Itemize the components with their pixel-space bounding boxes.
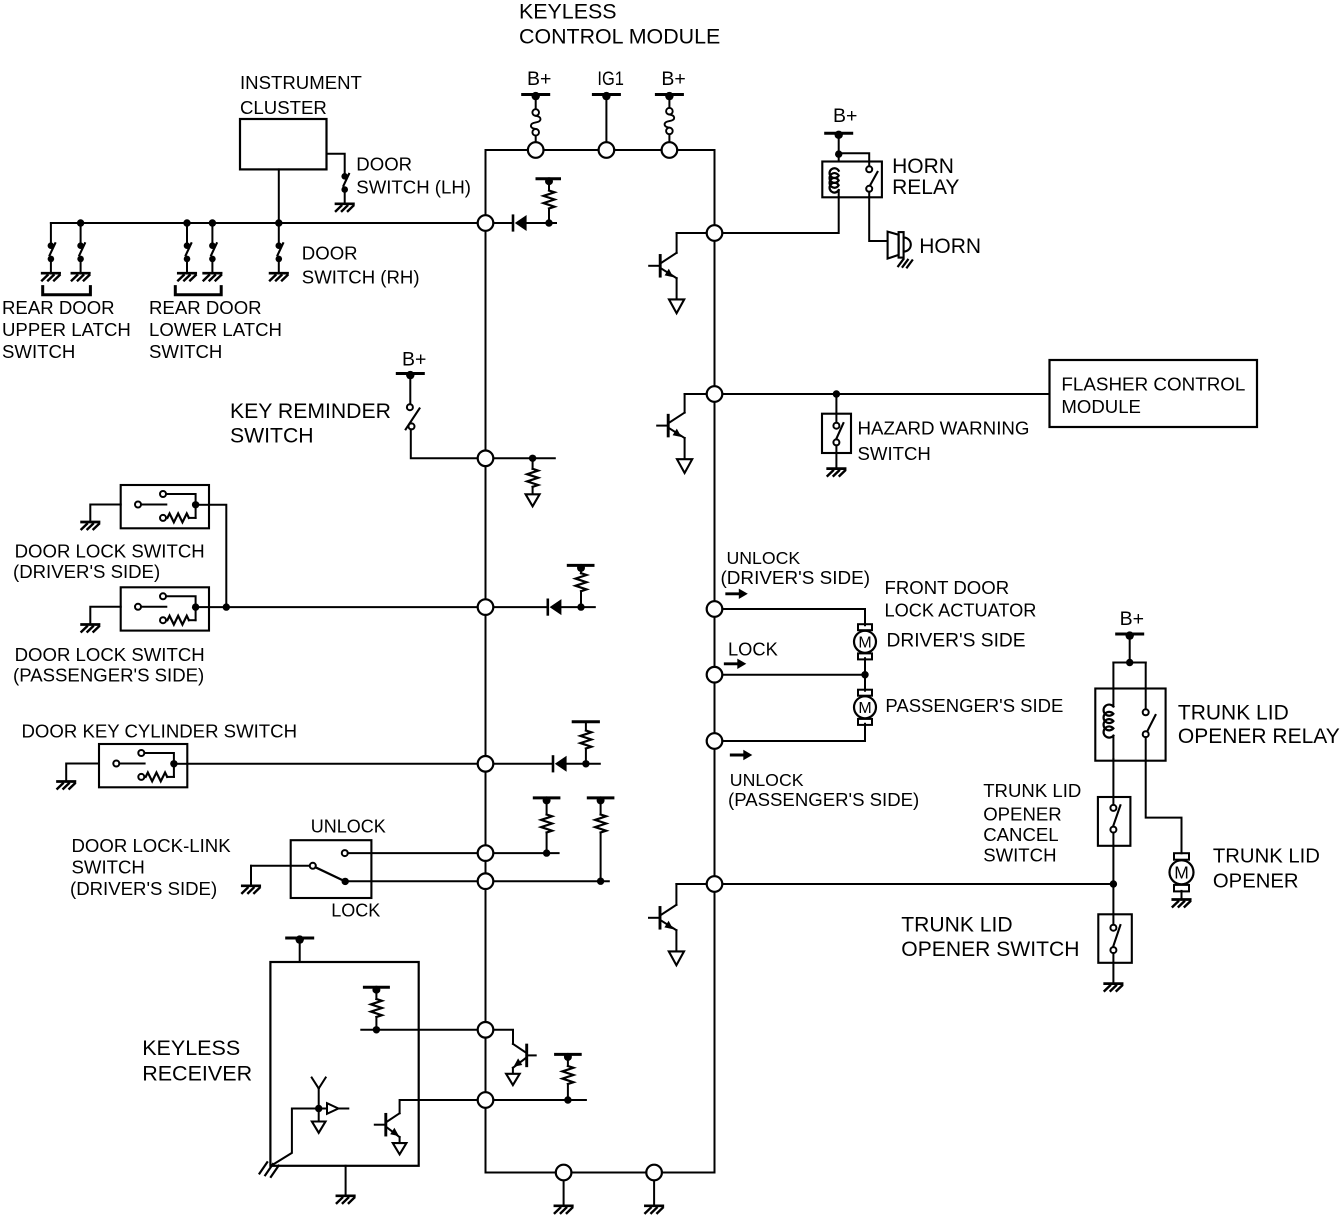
svg-text:MODULE: MODULE <box>1061 396 1141 417</box>
wire door switch RH drop <box>278 223 280 244</box>
diode (door switch input) <box>513 215 527 231</box>
wire pin to trunk lid switches <box>715 883 1114 885</box>
horn relay coil <box>830 168 839 192</box>
wire key reminder internal stub <box>486 457 555 459</box>
label DOOR SWITCH (RH) <box>302 242 420 287</box>
wire door lock switch (passenger) to ground <box>90 607 120 623</box>
junction pull-up (unlock row) <box>543 849 550 856</box>
svg-text:DOOR: DOOR <box>302 242 358 263</box>
wire Q2 collector <box>684 394 686 413</box>
wire unlock pin to actuator motor 1 <box>715 609 866 625</box>
trunk relay switch <box>1143 689 1156 761</box>
svg-text:HORN: HORN <box>919 235 981 258</box>
bracket rear door upper latch <box>43 287 91 295</box>
wire receiver power to box <box>299 940 301 963</box>
wire pull-up resistor (lock row) <box>600 800 602 814</box>
pin unlock passenger output <box>707 733 723 749</box>
power bar (receiver pull-up) <box>364 986 388 994</box>
wire B+ to key reminder switch <box>409 375 411 404</box>
svg-text:REAR DOOR: REAR DOOR <box>2 297 115 318</box>
pin flasher output <box>707 386 723 402</box>
wire door lock switch (driver) output <box>209 505 226 607</box>
door lock-link switch pole <box>251 863 316 869</box>
label DOOR LOCK-LINK SWITCH (DRIVER'S SIDE) <box>70 835 231 899</box>
junction trunk relay feed <box>1126 659 1133 666</box>
wire horn relay coil lead <box>838 190 840 197</box>
door key cylinder switch <box>99 744 187 787</box>
label KEYLESS CONTROL MODULE <box>519 0 720 48</box>
transistor Q4 <box>506 1044 536 1085</box>
pin ground 2 <box>646 1165 662 1181</box>
wire key reminder switch to pin <box>411 429 486 458</box>
open arrow (key reminder pull-down) <box>526 494 540 506</box>
svg-text:(DRIVER'S SIDE): (DRIVER'S SIDE) <box>13 561 160 582</box>
power terminal B+ (key reminder) <box>397 371 423 379</box>
ground (hazard warning switch) <box>828 469 846 476</box>
power bar (receiver data pull-up) <box>556 1053 581 1061</box>
wire hazard switch to ground <box>835 453 837 467</box>
svg-text:PASSENGER'S SIDE: PASSENGER'S SIDE <box>885 695 1063 716</box>
svg-text:DRIVER'S SIDE: DRIVER'S SIDE <box>887 631 1026 652</box>
wire junction to motor2 <box>864 675 866 691</box>
rear door upper latch switch 2 <box>72 242 90 280</box>
svg-text:TRUNK LID: TRUNK LID <box>1178 702 1289 725</box>
pin trunk output <box>707 876 723 892</box>
wire pull-up resistor (row2) <box>580 569 582 574</box>
wire fusible link to pin (right) <box>668 134 670 150</box>
label TRUNK LID OPENER (motor) <box>1213 846 1320 893</box>
resistor pull-up (receiver) <box>371 999 382 1017</box>
motor M (trunk lid opener) <box>1170 853 1194 891</box>
junction on bus (upper latch 2) <box>77 219 84 226</box>
label DOOR LOCK SWITCH (PASSENGER'S SIDE) <box>13 644 205 685</box>
junction diode/pull-up (row1) <box>545 219 552 226</box>
wire UNLOCK contact to pin <box>348 852 486 854</box>
junction on bus (door switch RH) <box>275 219 282 226</box>
wire receiver pull-up resistor <box>375 990 377 999</box>
wire pin to transistor Q1 <box>677 232 715 234</box>
resistor pull-up (receiver data) <box>562 1066 573 1084</box>
wire receiver box to ground <box>345 1166 347 1195</box>
wire instrument cluster to door switch LH <box>327 154 345 174</box>
svg-text:OPENER: OPENER <box>983 803 1062 824</box>
svg-text:SWITCH: SWITCH <box>983 844 1056 865</box>
fusible link (left B+) <box>531 109 541 135</box>
junction actuator common <box>861 671 868 678</box>
pin B+ (module top right) <box>662 142 678 158</box>
wire antenna node to case corner <box>272 1109 319 1166</box>
wire receiver output to pin <box>361 1029 485 1031</box>
ground (module pin 1) <box>555 1206 573 1213</box>
junction antenna node <box>315 1105 322 1112</box>
wire pin to transistor Q5 <box>400 1100 486 1113</box>
svg-text:KEYLESS: KEYLESS <box>519 0 617 24</box>
wire opener switch to ground <box>1112 963 1114 982</box>
pin ground 1 <box>556 1165 572 1181</box>
wire pull-up resistor (unlock row) <box>546 800 548 814</box>
door lock-link LOCK contact <box>342 878 349 885</box>
svg-text:RECEIVER: RECEIVER <box>142 1062 252 1086</box>
svg-text:B+: B+ <box>661 68 685 90</box>
keyless receiver box <box>270 962 418 1166</box>
transistor Q2 <box>657 413 692 473</box>
svg-text:IG1: IG1 <box>597 68 624 90</box>
svg-text:SWITCH: SWITCH <box>230 425 314 448</box>
key reminder switch <box>406 404 420 429</box>
power terminal (keyless receiver B+) <box>287 935 313 943</box>
rear door upper latch switch 1 <box>42 242 60 280</box>
wire LOCK contact to pin <box>349 880 486 882</box>
svg-text:DOOR LOCK-LINK: DOOR LOCK-LINK <box>72 835 232 856</box>
label KEYLESS RECEIVER <box>142 1036 252 1086</box>
pin receiver data <box>478 1092 494 1108</box>
wire pin to transistor Q4 <box>486 1030 514 1044</box>
svg-text:REAR DOOR: REAR DOOR <box>149 297 262 318</box>
svg-text:UPPER LATCH: UPPER LATCH <box>2 319 131 340</box>
wire resistor to arrow <box>532 458 534 469</box>
ground (door lock switch passenger) <box>82 625 100 632</box>
flasher control module box <box>1050 360 1258 427</box>
wire pull-up resistor (row3) <box>585 722 587 731</box>
power terminal B+ (left) <box>523 92 549 100</box>
wire Q1 collector <box>676 233 678 253</box>
svg-text:DOOR LOCK SWITCH: DOOR LOCK SWITCH <box>15 644 205 665</box>
rear door lower latch switch 2 <box>204 242 222 280</box>
junction door lock outputs <box>223 603 230 610</box>
power bar (row3 pull-up) <box>573 720 598 723</box>
door lock switch (passenger's side) <box>121 587 209 630</box>
label TRUNK LID OPENER RELAY <box>1178 702 1340 749</box>
svg-text:KEY REMINDER: KEY REMINDER <box>230 400 391 423</box>
svg-text:LOCK: LOCK <box>331 900 380 920</box>
wire horn relay contact feed <box>839 153 870 161</box>
rear door lower latch switch 1 <box>178 242 196 280</box>
wire instrument cluster to door switch bus <box>278 169 280 223</box>
wire pin to diode (door switch input) <box>486 222 514 224</box>
wire lock row stub <box>486 880 609 882</box>
label UNLOCK (DRIVER'S SIDE) <box>721 548 871 589</box>
hazard warning switch <box>822 414 851 453</box>
door lock switch (driver's side) <box>121 485 209 528</box>
svg-text:LOCK ACTUATOR: LOCK ACTUATOR <box>885 600 1037 620</box>
wire receiver data stub <box>486 1099 586 1101</box>
wire Q3 collector <box>675 884 677 905</box>
wire key cylinder output to pin <box>187 763 485 765</box>
svg-text:M: M <box>858 700 871 717</box>
wire trunk relay coil to cancel switch <box>1112 759 1114 797</box>
wire diode to pull-up junction <box>527 222 556 224</box>
trunk lid opener switch <box>1098 914 1132 963</box>
power bar (unlock row pull-up) <box>534 796 559 804</box>
pin lock-link unlock input <box>478 845 494 861</box>
arrow lock <box>725 659 746 669</box>
svg-text:FRONT DOOR: FRONT DOOR <box>885 577 1010 598</box>
label HAZARD WARNING SWITCH <box>858 418 1030 464</box>
junction horn relay feed <box>835 150 842 157</box>
svg-text:OPENER: OPENER <box>1213 870 1299 892</box>
amplifier arrow (receiver) <box>319 1103 349 1114</box>
svg-text:RELAY: RELAY <box>892 176 959 199</box>
wire pull-up resistor (receiver data) <box>567 1057 569 1066</box>
ground (keyless receiver) <box>337 1196 355 1203</box>
label FLASHER CONTROL MODULE <box>1061 374 1245 417</box>
resistor pull-up (unlock row) <box>541 815 552 833</box>
pin door lock switch input <box>478 599 494 615</box>
junction diode/pull-up (row3) <box>582 760 589 767</box>
wire rear door upper latch switch 1 drop <box>50 223 52 244</box>
wire B+ to horn relay <box>838 135 840 162</box>
trunk lid opener relay box <box>1095 689 1165 761</box>
antenna (keyless receiver) <box>312 1078 326 1109</box>
svg-text:SWITCH: SWITCH <box>858 443 931 464</box>
pin IG1 (module top) <box>599 142 615 158</box>
horn <box>888 232 913 268</box>
power bar (row2 pull-up) <box>568 564 593 572</box>
ground (door lock-link switch) <box>242 886 260 893</box>
wire diode to stub (row2) <box>561 606 594 608</box>
svg-text:(DRIVER'S SIDE): (DRIVER'S SIDE) <box>721 568 871 589</box>
wire diode to stub (row3) <box>567 763 600 765</box>
arrow unlock driver <box>727 589 748 599</box>
fusible link (right B+) <box>665 108 675 134</box>
pin key reminder input <box>478 451 494 467</box>
wire pin to diode (row2) <box>486 606 548 608</box>
svg-text:SWITCH: SWITCH <box>72 856 145 877</box>
trunk relay coil <box>1104 689 1114 760</box>
label TRUNK LID OPENER SWITCH <box>901 914 1079 961</box>
pin lock output <box>707 667 723 683</box>
resistor key reminder pull-down <box>527 469 538 487</box>
ground (door key cylinder switch) <box>57 782 75 789</box>
svg-text:HAZARD WARNING: HAZARD WARNING <box>858 418 1030 439</box>
svg-text:OPENER SWITCH: OPENER SWITCH <box>901 938 1079 961</box>
wire fusible link to pin <box>535 136 537 150</box>
power terminal B+ (horn relay) <box>826 131 852 139</box>
label REAR DOOR LOWER LATCH SWITCH <box>149 297 282 362</box>
door lock-link switch box <box>291 840 372 898</box>
label DOOR LOCK SWITCH (DRIVER'S SIDE) <box>13 540 205 582</box>
keyless control module outline (bottom edge) <box>486 1172 715 1174</box>
pin key cylinder input <box>478 756 494 772</box>
svg-text:KEYLESS: KEYLESS <box>142 1036 240 1060</box>
ground (door lock switch driver) <box>82 522 100 529</box>
junction trunk wire <box>1110 880 1117 887</box>
svg-text:LOWER LATCH: LOWER LATCH <box>149 319 282 340</box>
label HORN RELAY <box>892 155 959 199</box>
transistor Q5 <box>375 1113 407 1154</box>
svg-text:SWITCH: SWITCH <box>149 341 222 362</box>
bracket rear door lower latch <box>175 287 221 295</box>
junction on bus (lower latch 2) <box>209 219 216 226</box>
arrow unlock passenger <box>731 750 752 760</box>
door switch (LH) <box>336 173 354 211</box>
wire pin to transistor Q2 <box>685 393 715 395</box>
resistor pull-up (row1) <box>544 191 555 209</box>
label INSTRUMENT CLUSTER <box>240 72 362 118</box>
svg-text:(PASSENGER'S SIDE): (PASSENGER'S SIDE) <box>13 665 204 686</box>
door lock-link switch blade <box>316 867 345 881</box>
keyless control module outline (left edge) <box>485 150 487 1173</box>
ground (trunk lid opener switch) <box>1105 984 1123 991</box>
junction hazard warning switch <box>833 390 840 397</box>
svg-text:SWITCH (LH): SWITCH (LH) <box>356 177 471 198</box>
wire pin to flasher control module <box>715 393 1050 395</box>
wire motor2 to unlock passenger pin <box>715 724 866 741</box>
pin unlock driver output <box>707 601 723 617</box>
junction diode/pull-up (row2) <box>577 603 584 610</box>
resistor pull-up (row2) <box>576 573 587 591</box>
junction key reminder pull-down <box>529 455 536 462</box>
svg-text:UNLOCK: UNLOCK <box>727 548 801 568</box>
wire door switch bus <box>51 222 486 224</box>
svg-text:TRUNK LID: TRUNK LID <box>1213 846 1320 868</box>
pin door switch input <box>478 215 494 231</box>
svg-text:INSTRUMENT: INSTRUMENT <box>240 72 362 93</box>
label REAR DOOR UPPER LATCH SWITCH <box>2 297 131 362</box>
svg-text:TRUNK LID: TRUNK LID <box>901 914 1012 937</box>
svg-text:DOOR: DOOR <box>356 153 412 174</box>
diode (door lock input) <box>548 599 562 615</box>
wire door lock switch (driver) to ground <box>90 505 120 521</box>
svg-text:M: M <box>858 635 871 652</box>
resistor pull-up (row3) <box>580 731 591 749</box>
wire pin to transistor Q3 <box>676 883 714 885</box>
wire IG1 to pin <box>605 96 607 150</box>
wire horn relay coil to Q1 pin <box>722 197 838 233</box>
svg-text:B+: B+ <box>402 349 426 371</box>
door switch (RH) <box>270 242 288 280</box>
wire lock-link ground <box>250 866 252 885</box>
wire key cylinder to ground <box>66 764 99 781</box>
svg-text:LOCK: LOCK <box>728 638 778 659</box>
svg-text:SWITCH (RH): SWITCH (RH) <box>302 267 420 288</box>
wire bottom pin 2 to ground <box>653 1173 655 1205</box>
wire horn relay switch to horn <box>869 197 887 241</box>
svg-text:DOOR LOCK SWITCH: DOOR LOCK SWITCH <box>15 540 205 561</box>
wire bottom pin 1 to ground <box>563 1173 565 1205</box>
wire pin to diode (row3) <box>486 763 554 765</box>
power bar (row1 pull-up) <box>537 177 560 185</box>
svg-text:CANCEL: CANCEL <box>983 824 1058 845</box>
resistor pull-up (lock row) <box>595 815 606 833</box>
diode (key cylinder input) <box>553 756 567 772</box>
svg-text:B+: B+ <box>1120 608 1144 630</box>
ground (module pin 2) <box>645 1206 663 1213</box>
wire B+ to trunk relay junction <box>1129 636 1131 663</box>
svg-text:DOOR KEY CYLINDER SWITCH: DOOR KEY CYLINDER SWITCH <box>22 721 298 742</box>
wire rear door lower latch switch 1 drop <box>186 223 188 244</box>
ground (trunk lid opener) <box>1173 900 1191 907</box>
svg-text:CLUSTER: CLUSTER <box>240 97 327 118</box>
horn relay box <box>822 162 882 198</box>
svg-text:M: M <box>1174 863 1189 883</box>
motor M (driver's side actuator) <box>854 624 876 659</box>
svg-text:(PASSENGER'S SIDE): (PASSENGER'S SIDE) <box>728 789 919 810</box>
wire B+ to fusible link (right) <box>668 96 670 108</box>
wire trunk relay switch to motor <box>1146 761 1182 854</box>
junction pull-up (receiver data) <box>564 1096 571 1103</box>
case ground hatching (receiver corner) <box>260 1162 279 1177</box>
power terminal IG1 <box>593 92 619 100</box>
svg-text:HORN: HORN <box>892 155 954 178</box>
label KEY REMINDER SWITCH <box>230 400 391 448</box>
trunk lid opener cancel switch <box>1098 797 1131 846</box>
svg-text:B+: B+ <box>833 105 857 127</box>
wire pull-up resistor (row1) <box>548 182 550 191</box>
power terminal B+ (trunk) <box>1117 631 1143 639</box>
wire cancel switch to opener switch <box>1112 846 1114 915</box>
wire trunk relay feed split <box>1113 662 1145 664</box>
open arrow below antenna node <box>312 1109 326 1133</box>
pin B+ (module top left) <box>528 142 544 158</box>
pin horn output <box>707 225 723 241</box>
power terminal B+ (right) <box>656 92 682 100</box>
wire rear door lower latch switch 2 drop <box>211 223 213 244</box>
keyless control module outline (top edge) <box>486 149 715 151</box>
svg-text:SWITCH: SWITCH <box>2 341 75 362</box>
wire lock pin to actuator junction <box>715 674 866 676</box>
svg-text:TRUNK LID: TRUNK LID <box>983 780 1081 801</box>
junction receiver output <box>373 1026 380 1033</box>
wire hazard switch drop <box>835 394 837 414</box>
label DOOR SWITCH (LH) <box>356 153 471 197</box>
keyless control module outline (right edge) <box>714 150 716 1173</box>
power bar (lock row pull-up) <box>588 796 613 804</box>
horn relay switch <box>866 162 877 198</box>
motor M (passenger's side actuator) <box>854 690 876 725</box>
label TRUNK LID OPENER CANCEL SWITCH <box>983 780 1081 865</box>
door lock-link UNLOCK contact <box>342 850 348 856</box>
svg-text:OPENER RELAY: OPENER RELAY <box>1178 725 1340 748</box>
svg-text:FLASHER CONTROL: FLASHER CONTROL <box>1061 374 1245 395</box>
junction pull-up (lock row) <box>597 878 604 885</box>
wire door lock switches to pin <box>209 606 486 608</box>
pin receiver power out <box>478 1022 494 1038</box>
svg-text:(DRIVER'S SIDE): (DRIVER'S SIDE) <box>70 878 217 899</box>
label FRONT DOOR LOCK ACTUATOR <box>885 577 1037 620</box>
label UNLOCK (PASSENGER'S SIDE) <box>728 770 919 810</box>
svg-text:B+: B+ <box>527 68 551 90</box>
junction on bus (lower latch 1) <box>183 219 190 226</box>
transistor Q3 <box>649 905 684 965</box>
wire motor1 to junction <box>864 658 866 675</box>
svg-text:UNLOCK: UNLOCK <box>311 816 386 836</box>
svg-text:CONTROL MODULE: CONTROL MODULE <box>519 24 720 48</box>
instrument cluster box <box>240 119 327 169</box>
transistor Q1 <box>649 253 684 313</box>
svg-text:UNLOCK: UNLOCK <box>730 770 804 790</box>
pin lock-link lock input <box>478 873 494 889</box>
wire unlock row stub <box>486 852 559 854</box>
wire trunk motor to ground <box>1181 891 1183 898</box>
wire B+ to fusible link <box>535 96 537 109</box>
wire rear door upper latch switch 2 drop <box>80 223 82 244</box>
